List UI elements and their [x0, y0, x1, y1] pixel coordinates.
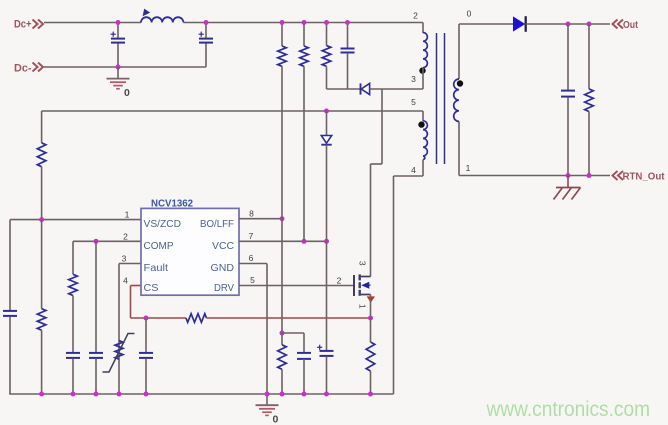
resistor R bo lower — [281, 333, 283, 345]
capacitor C bo — [297, 352, 311, 354]
junction out cap — [566, 22, 571, 27]
svg-text:Fault: Fault — [144, 262, 169, 274]
junction pin7 at R vcc — [302, 239, 307, 244]
wire aux to diode — [326, 111, 328, 135]
diode D out — [513, 16, 525, 31]
wire BO/LFF pin8 — [239, 218, 282, 220]
svg-text:3: 3 — [357, 261, 367, 266]
resistor R vcc upper lead — [303, 23, 305, 47]
wire COMP pin2 — [73, 240, 141, 242]
svg-text:3: 3 — [122, 254, 127, 264]
wire Fault pin3 — [119, 263, 141, 265]
wire Dc- rail — [44, 66, 206, 68]
junction rtn res — [587, 173, 592, 178]
junction rail gnd — [265, 392, 270, 397]
wire bo cap branch — [303, 333, 305, 352]
svg-text:NCV1362: NCV1362 — [151, 198, 193, 210]
svg-text:1: 1 — [125, 210, 130, 220]
inductor L1 — [141, 17, 183, 22]
phase dot winding upper — [419, 67, 425, 73]
mosfet source red arrow — [367, 296, 375, 302]
svg-text:COMP: COMP — [144, 240, 174, 252]
wire clamp node to diode — [327, 88, 361, 90]
capacitor C vcc — [320, 350, 334, 352]
svg-text:5: 5 — [250, 275, 255, 285]
svg-text:1: 1 — [357, 304, 367, 309]
wire inductor to transformer pin 2 — [183, 22, 423, 24]
resistor R sense — [366, 342, 375, 371]
svg-text:www.cntronics.com: www.cntronics.com — [486, 398, 650, 421]
junction rail r-bo — [280, 392, 285, 397]
junction top rail at R vcc — [302, 20, 307, 25]
junction pin8 — [280, 216, 285, 221]
capacitor C2 input — [205, 23, 207, 38]
capacitor C cs — [139, 352, 153, 354]
wire comp C2 branch — [95, 241, 97, 352]
transformer secondary winding — [458, 24, 460, 79]
capacitor C out — [567, 24, 569, 90]
resistor R vcc — [300, 46, 309, 66]
capacitor C clamp — [347, 23, 349, 49]
wire sense to rail — [370, 371, 372, 394]
svg-text:DRV: DRV — [214, 282, 234, 294]
wire clamp r down — [326, 66, 328, 89]
junction aux wire vcc diode — [324, 109, 329, 114]
capacitor C comp2 — [89, 352, 103, 354]
wire RTN rail — [459, 175, 610, 177]
wire bo node right — [282, 332, 304, 334]
diode D vcc — [321, 136, 331, 144]
op-amp U1 NCV1362 box — [141, 208, 239, 295]
wire CS cap branch — [145, 318, 147, 352]
wire divider lower to rail — [41, 330, 43, 394]
svg-text:2: 2 — [413, 11, 418, 21]
ground 0 input — [117, 67, 119, 78]
phase dot winding lower — [418, 121, 424, 127]
junction pin7 at diode line — [324, 239, 329, 244]
svg-text:CS: CS — [144, 282, 159, 294]
wire drain drop — [381, 89, 383, 164]
svg-text:4: 4 — [411, 165, 416, 175]
svg-text:0: 0 — [273, 414, 279, 425]
junction rail r-divider — [39, 392, 44, 397]
wire diode to pin7 — [326, 145, 328, 242]
connector Out — [613, 20, 624, 29]
junction CS node — [144, 316, 149, 321]
junction top rail at C1 — [116, 20, 121, 25]
svg-text:4: 4 — [123, 276, 128, 286]
capacitor C left — [3, 310, 17, 312]
resistor R divider upper — [37, 143, 46, 167]
transformer core — [436, 33, 438, 164]
wire VS divider upper — [41, 111, 43, 143]
junction source cs — [368, 316, 373, 321]
ground 0 main — [266, 394, 268, 405]
wire GND pin6 — [239, 263, 267, 265]
svg-text:2: 2 — [123, 231, 128, 241]
wire bo down — [281, 66, 283, 333]
resistor R comp — [69, 274, 78, 295]
chassis ground output — [567, 176, 569, 188]
resistor R divider lower — [37, 309, 46, 331]
svg-text:GND: GND — [211, 262, 235, 274]
wire pin4 terminal — [422, 160, 424, 176]
junction bo lower node — [280, 331, 285, 336]
junction rail c-vcc — [324, 392, 329, 397]
junction rail c-bo — [302, 392, 307, 397]
junction top rail at R clamp — [324, 20, 329, 25]
svg-text:2: 2 — [337, 275, 342, 285]
svg-text:1: 1 — [466, 163, 471, 173]
wire left branch down — [9, 220, 11, 311]
junction rail comp2 — [94, 392, 99, 397]
resistor R cs filter — [186, 314, 207, 323]
svg-text:VCC: VCC — [212, 240, 234, 252]
resistor R out — [588, 24, 590, 89]
wire Dc+ to inductor — [44, 22, 141, 24]
resistor R clamp — [322, 46, 331, 67]
thermistor RT — [115, 341, 123, 360]
connector RTN_Out — [613, 171, 624, 180]
wire vcc down to cap — [326, 241, 328, 350]
svg-text:6: 6 — [249, 253, 254, 263]
junction out res — [587, 22, 592, 27]
junction top rail at R bo — [280, 20, 285, 25]
wire pin3 terminal — [422, 68, 424, 89]
wire CS pin4 — [131, 285, 142, 287]
svg-text:Dc+: Dc+ — [14, 19, 32, 31]
wire aux node 5 horizontal — [42, 110, 423, 112]
transformer T1 primary winding lower — [423, 121, 427, 160]
junction rtn cap — [566, 173, 571, 178]
capacitor C1 input — [117, 23, 119, 38]
svg-text:0: 0 — [124, 87, 130, 99]
transistor Q1 mosfet — [353, 275, 355, 296]
svg-text:7: 7 — [249, 231, 254, 241]
capacitor C comp — [66, 352, 80, 354]
junction rail sense — [368, 392, 373, 397]
wire VCC pin7 — [239, 240, 327, 242]
phase dot secondary — [457, 80, 463, 86]
resistor R bo upper lead — [281, 23, 283, 47]
wire source to sense resistor — [370, 318, 372, 342]
wire diode to out — [526, 23, 610, 25]
wire comp R to C — [72, 296, 74, 353]
junction rail comp — [71, 392, 76, 397]
diode D clamp — [360, 83, 362, 94]
wire diode to node 3 — [370, 88, 423, 90]
junction rail cs cap — [144, 392, 149, 397]
svg-text:8: 8 — [249, 209, 254, 219]
svg-text:3: 3 — [411, 74, 416, 84]
transformer T1 primary winding upper — [422, 32, 424, 35]
svg-text:VS/ZCD: VS/ZCD — [144, 218, 182, 230]
svg-text:RTN_Out: RTN_Out — [623, 171, 665, 183]
svg-text:0: 0 — [467, 9, 472, 19]
wire r vcc down to pin7 — [303, 66, 305, 241]
wire secondary to diode — [459, 23, 513, 25]
wire secondary bottom — [458, 121, 460, 175]
wire source down — [370, 295, 372, 319]
wire pin1 to IC — [10, 219, 141, 221]
junction pin2 wire — [94, 239, 99, 244]
svg-text:5: 5 — [411, 97, 416, 107]
junction Dc- at ground — [116, 65, 121, 70]
svg-text:BO/LFF: BO/LFF — [200, 218, 234, 230]
svg-text:Dc-: Dc- — [14, 63, 32, 75]
junction rail thermistor — [117, 392, 122, 397]
svg-text:Out: Out — [623, 19, 638, 31]
wire divider lower upper-lead — [41, 220, 43, 309]
wire divider mid to pin1 node — [41, 167, 43, 220]
resistor R bo — [278, 46, 287, 66]
resistor R clamp upper lead — [326, 23, 328, 46]
wire cs filter to source — [207, 317, 371, 319]
junction top rail at C2 — [204, 20, 209, 25]
junction top rail at C clamp — [345, 20, 350, 25]
wire DRV pin5 to gate — [239, 285, 353, 287]
bottom ground rail — [9, 393, 393, 395]
junction divider at pin1 — [39, 217, 44, 222]
